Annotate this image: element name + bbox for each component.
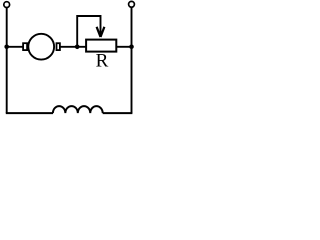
rheostat tap bracket wire [77,16,100,47]
svg-text:R: R [96,51,109,72]
motor M right brush square [57,43,60,50]
wire: resistor to right rail [117,46,132,48]
inductor L (4 humps) [53,106,103,113]
wire: main horizontal, left rail to motor left brush [7,46,23,48]
wire: bottom right segment [103,112,133,114]
node: junction dot at tap/wire [75,45,80,50]
resistor R body [86,40,116,52]
wire: left rail (T1 down to bottom wire) [6,8,8,114]
motor M armature circle [28,34,54,60]
node: junction dot on left rail [4,45,9,50]
node: junction dot on right rail [129,44,134,49]
wire: bottom left segment [6,112,53,114]
terminal T1 (top-left open circle) [4,2,10,8]
motor M left brush square [23,43,27,50]
wire: motor right brush to resistor [60,46,86,48]
rheostat arrow head [97,27,105,37]
wire: right rail (T2 down to bottom wire) [131,7,133,113]
terminal T2 (top-right open circle) [129,1,135,7]
